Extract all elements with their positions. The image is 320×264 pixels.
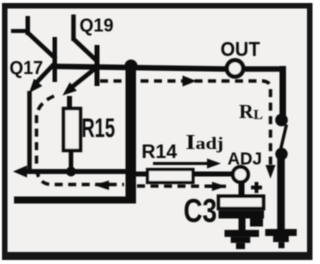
svg-text:ADJ: ADJ	[228, 149, 263, 169]
wire R14 lead	[136, 172, 233, 177]
flow arrow down toward ADJ	[266, 165, 276, 179]
svg-text:Q17: Q17	[10, 58, 44, 78]
transistor Q19	[63, 15, 100, 96]
dashed feedback path top (to ADJ branch)	[100, 81, 271, 167]
junction R15/return line	[66, 167, 76, 177]
flow arrow left end	[13, 166, 27, 178]
capacitor C3	[219, 196, 265, 231]
wire input stub	[11, 29, 27, 33]
junction bus/base rail	[125, 60, 138, 73]
wire OUT to corner	[245, 66, 286, 72]
ground below C3	[225, 230, 260, 249]
flow arrow into ADJ	[212, 182, 226, 191]
dashed feedback path right of bus	[137, 184, 226, 188]
svg-text:OUT: OUT	[221, 39, 261, 61]
node input T-bar	[26, 16, 31, 35]
dashed feedback path left	[37, 96, 125, 185]
wire emitter return line	[24, 169, 126, 174]
resistor R14	[148, 170, 194, 183]
terminal ADJ	[233, 167, 248, 182]
wire base rail	[55, 66, 226, 69]
border frame left	[2, 3, 8, 260]
flow arrow left on bottom dashed	[94, 181, 109, 191]
resistor R15	[64, 96, 81, 172]
ground load side	[265, 229, 297, 248]
border frame right	[307, 3, 313, 260]
load switch on RL branch	[275, 114, 288, 161]
wire load drop	[277, 153, 285, 231]
svg-text:C3: C3	[184, 193, 218, 230]
wire output bus bottom thick	[14, 197, 136, 204]
wire ADJ stem	[239, 182, 245, 198]
svg-text:R15: R15	[82, 114, 116, 144]
wire output bus vertical thick	[126, 64, 137, 204]
svg-text:R14: R14	[142, 142, 178, 163]
svg-text:Q19: Q19	[80, 16, 114, 36]
border frame top	[2, 3, 312, 9]
current arrow Iadj	[153, 159, 221, 169]
transistor Q17	[27, 32, 57, 93]
wire right drop to switch	[280, 66, 287, 121]
border frame bottom	[2, 252, 312, 260]
flow arrow right on top dashed	[183, 76, 197, 87]
OUT terminal	[227, 60, 243, 76]
polarity plus of C3	[251, 182, 262, 193]
svg-text:Iadj: Iadj	[186, 130, 224, 154]
wire Q17 emitter drop	[27, 91, 32, 172]
